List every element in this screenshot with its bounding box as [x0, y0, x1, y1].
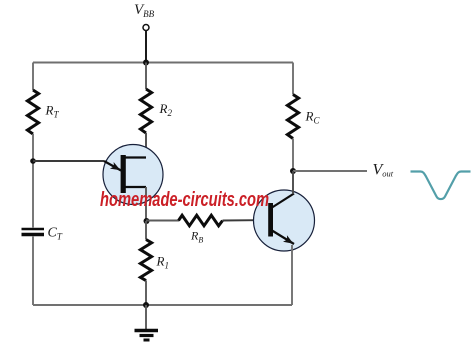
node: top junction — [143, 60, 149, 66]
wire: ground stub — [145, 305, 147, 331]
wire: VBB stub — [145, 31, 147, 63]
wire: left rail upper — [32, 63, 34, 91]
wire: right rail upper — [292, 63, 294, 95]
transistor Q2 base bar — [268, 203, 273, 237]
wire: left rail lower — [32, 237, 34, 306]
wire: RC bottom lead — [292, 139, 294, 172]
svg-text:R1: R1 — [156, 254, 169, 271]
wire: bottom rail — [33, 304, 292, 306]
watermark homemade-circuits.com — [100, 189, 269, 212]
wire: R1 top lead — [145, 221, 147, 240]
transistor Q2 collector — [272, 194, 294, 208]
transistor Q2 emitter with arrow — [272, 231, 295, 247]
resistor RC — [287, 95, 298, 139]
VBB terminal — [143, 25, 149, 31]
svg-text:VBB: VBB — [134, 2, 155, 19]
node: middle junction — [144, 218, 150, 224]
wire: left rail middle — [32, 134, 34, 228]
wire: Q1 B1 down to junction — [145, 187, 147, 221]
wire: R1 bottom lead — [145, 281, 147, 306]
wire: R2 bottom lead to drain — [145, 133, 147, 157]
wire: collector to junction — [292, 171, 294, 194]
resistor RT — [27, 90, 38, 134]
ground — [135, 331, 159, 341]
transistor Q1 emitter arrow — [104, 161, 122, 174]
transistor Q1 B1 lead — [125, 186, 146, 188]
resistor R1 — [140, 240, 151, 281]
wire: top rail — [33, 62, 293, 64]
node: bottom junction — [143, 302, 149, 308]
svg-text:Vout: Vout — [373, 162, 394, 179]
svg-text:R2: R2 — [159, 101, 173, 118]
capacitor CT — [22, 229, 45, 235]
svg-text:RB: RB — [190, 229, 203, 245]
transistor Q1 bar — [121, 155, 126, 193]
wire: gate horizontal — [33, 160, 104, 162]
wire: output — [293, 170, 367, 172]
wire: emitter down to bottom rail — [291, 245, 293, 305]
resistor RB — [179, 215, 223, 226]
transistor Q1 B2 lead — [125, 156, 146, 158]
wire: R2 top lead — [145, 63, 147, 90]
svg-text:CT: CT — [48, 226, 63, 242]
transistor Q2 (BJT) circle — [254, 190, 315, 251]
transistor Q1 (UJT) circle — [103, 145, 163, 205]
waveform Vout — [411, 172, 471, 200]
wire: junction to RB — [146, 220, 179, 222]
node: collector junction — [290, 168, 296, 174]
svg-text:RC: RC — [305, 109, 321, 126]
resistor R2 — [140, 89, 151, 133]
svg-text:RT: RT — [45, 103, 60, 120]
node: left junction — [30, 158, 36, 164]
wire: RB to base — [223, 219, 269, 222]
